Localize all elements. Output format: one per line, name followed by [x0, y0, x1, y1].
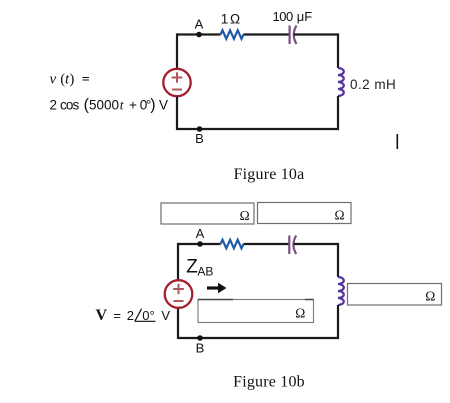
svg-text:Figure 10b: Figure 10b: [233, 374, 305, 391]
svg-text:ZAB: ZAB: [186, 256, 213, 278]
svg-text:v(t)=: v(t)=: [50, 72, 90, 88]
wire: resistor to capacitor (Fig 10a): [244, 33, 290, 35]
capacitor (Fig 10b): [289, 236, 296, 255]
voltage source V1 circle (Fig 10a): [163, 69, 190, 96]
capacitor C (100 uF) Fig 10a: [290, 26, 297, 45]
svg-text:Ω: Ω: [335, 208, 345, 223]
voltage source V2 minus sign: [174, 300, 184, 302]
wire: resistor to capacitor (Fig 10b): [244, 243, 289, 245]
svg-text:Figure 10a: Figure 10a: [234, 166, 305, 183]
svg-text:B: B: [195, 131, 204, 146]
svg-text:1Ω: 1Ω: [221, 12, 240, 27]
wire: top-left segment (Fig 10b): [178, 243, 221, 245]
wire: left vertical upper (Fig 10a): [176, 33, 178, 68]
answer box 1 (top left): [161, 203, 254, 224]
wire: right vertical lower (Fig 10a): [337, 96, 339, 130]
svg-text:100μF: 100μF: [273, 9, 313, 24]
svg-text:A: A: [195, 17, 204, 32]
answer box 2 (top right): [258, 203, 352, 224]
wire: bottom (Fig 10a): [177, 128, 339, 130]
node B dot (Fig 10b): [197, 335, 203, 341]
svg-text:A: A: [196, 226, 205, 241]
resistor zigzag (Fig 10b): [221, 240, 244, 249]
wire: capacitor to top-right corner (Fig 10b): [294, 243, 338, 245]
wire: right vertical lower (Fig 10b): [337, 305, 339, 339]
wire: capacitor to top-right corner (Fig 10a): [294, 33, 338, 35]
svg-text:0.2 mH: 0.2 mH: [350, 77, 396, 92]
svg-text:B: B: [196, 341, 205, 356]
svg-text:Ω: Ω: [240, 208, 250, 223]
svg-text:Ω: Ω: [425, 289, 435, 304]
voltage source V2 plus sign: [173, 284, 184, 294]
wire: right vertical upper (Fig 10a): [337, 33, 339, 68]
voltage source V1 minus sign: [172, 89, 182, 91]
wire: bottom (Fig 10b): [178, 337, 339, 339]
svg-text:Ω: Ω: [295, 306, 305, 321]
answer box inner (Z_AB): [198, 300, 314, 323]
answer box right (inductor impedance): [348, 284, 442, 306]
wire: left vertical upper (Fig 10b): [177, 243, 179, 280]
voltage source V1 plus sign: [172, 72, 183, 82]
svg-text:=2: =2: [113, 308, 134, 323]
inductor L (0.2 mH) Fig 10a: [338, 68, 344, 96]
text cursor bar: [396, 134, 398, 149]
wire: top-left segment node to resistor (Fig 10a): [177, 33, 221, 35]
wire: left vertical lower (Fig 10a): [176, 97, 178, 130]
svg-text:V: V: [96, 307, 108, 324]
node A dot (Fig 10b): [197, 241, 203, 247]
wire: right vertical upper (Fig 10b): [337, 243, 339, 277]
inductor (Fig 10b): [338, 277, 344, 305]
svg-text:0°V: 0°V: [142, 308, 170, 323]
svg-text:2cos(5000t+0°)V: 2cos(5000t+0°)V: [50, 97, 169, 114]
voltage source V2 circle (Fig 10b): [165, 280, 193, 308]
wire: left vertical lower (Fig 10b): [177, 309, 179, 339]
node B dot (Fig 10a): [197, 126, 203, 132]
node A dot (Fig 10a): [196, 32, 202, 38]
impedance direction arrow: [207, 286, 219, 289]
resistor R (1 ohm) zigzag Fig 10a: [221, 30, 244, 39]
angle symbol: [135, 309, 156, 322]
